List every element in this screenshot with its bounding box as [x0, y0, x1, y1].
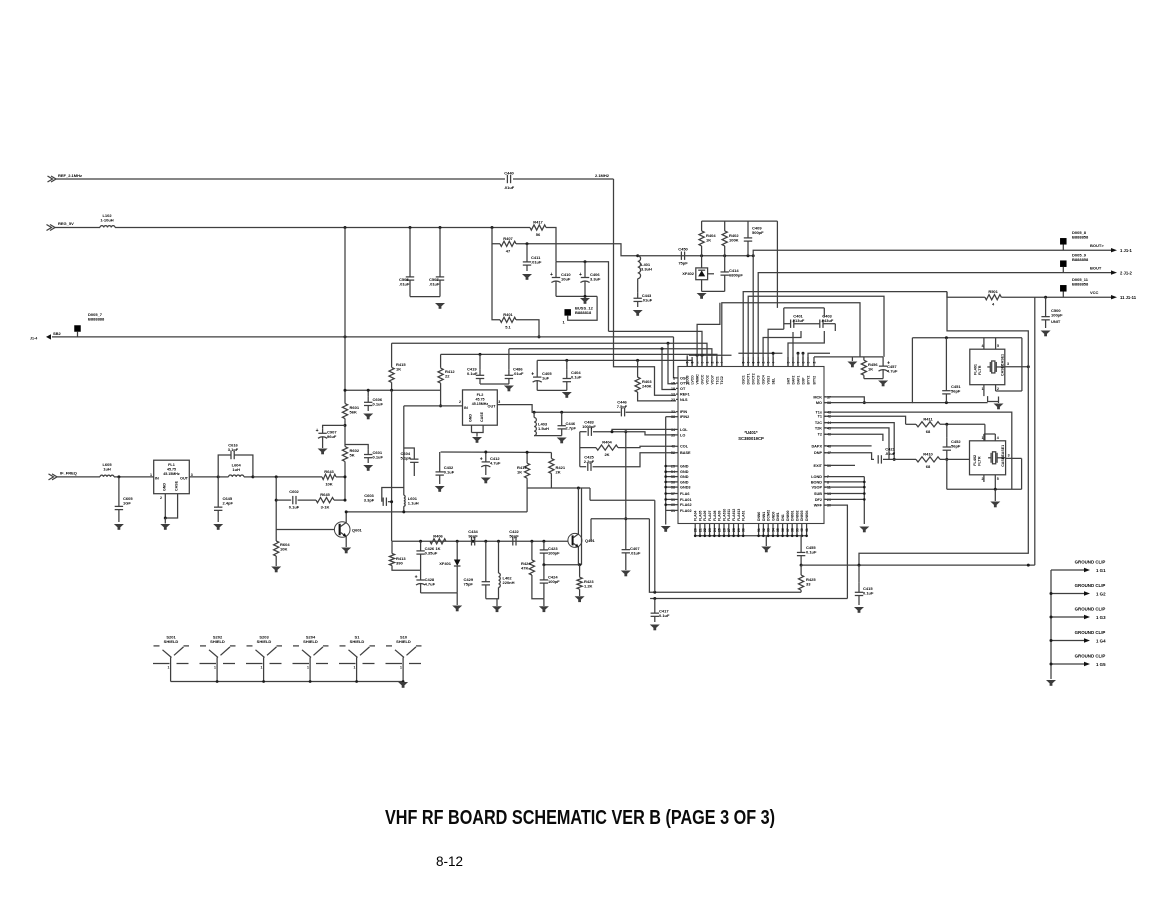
svg-text:2: 2 — [160, 496, 162, 500]
svg-text:OTY1: OTY1 — [680, 382, 690, 386]
wire VCC out — [1001, 296, 1111, 298]
svg-text:3-1K: 3-1K — [321, 505, 330, 510]
junction — [611, 430, 614, 433]
wire vert 1034 — [1034, 297, 1036, 565]
resistor R411 — [916, 416, 940, 434]
wire FL401 pin stubs — [983, 338, 985, 349]
capacitor C409 — [744, 221, 764, 256]
wire C457 rail — [814, 356, 883, 358]
svg-text:OSC1: OSC1 — [742, 375, 746, 384]
capacitor C645 — [214, 496, 234, 523]
node ground clip 4 — [1050, 630, 1107, 644]
wire — [56, 178, 505, 180]
svg-text:UNIT: UNIT — [1051, 319, 1061, 324]
ground — [650, 625, 660, 631]
svg-text:1: 1 — [982, 387, 984, 391]
wire ground clip bus — [1050, 570, 1052, 679]
svg-text:3: 3 — [1007, 362, 1009, 366]
svg-text:38: 38 — [791, 528, 795, 532]
capacitor C421 — [878, 446, 896, 463]
wire diode cap join — [702, 290, 725, 292]
capacitor C486 — [505, 367, 524, 385]
svg-text:XF402: XF402 — [682, 271, 695, 276]
svg-text:5.1pF: 5.1pF — [401, 456, 412, 461]
input arrow — [47, 225, 56, 231]
wire pad stub 1 — [1062, 245, 1064, 251]
filter FL401 — [970, 349, 1005, 385]
svg-text:R643: R643 — [324, 469, 334, 474]
svg-text:FLTR: FLTR — [978, 456, 982, 466]
wire C401 row — [784, 323, 791, 325]
transistor Q601 — [334, 522, 362, 538]
input arrow — [48, 176, 57, 182]
wire rail B to pin — [509, 349, 712, 367]
junction — [456, 540, 459, 543]
wire R424 bottom — [532, 578, 544, 599]
svg-text:LVCO: LVCO — [691, 375, 695, 385]
svg-text:.043uF: .043uF — [821, 318, 834, 323]
svg-text:2.4pF: 2.4pF — [223, 501, 234, 506]
junction — [636, 254, 639, 257]
wire C907 bottom — [322, 441, 324, 448]
inductor L102 — [100, 226, 115, 228]
wire C429 L402 join — [486, 587, 499, 598]
svg-text:8: 8 — [691, 362, 695, 364]
svg-text:47K: 47K — [521, 566, 528, 571]
wire FL402 stubs — [983, 434, 985, 441]
svg-text:27: 27 — [727, 528, 731, 532]
capacitor C404 — [563, 370, 582, 391]
wire R425 bottom rail — [649, 519, 801, 593]
svg-text:DN603: DN603 — [800, 510, 804, 521]
svg-text:500pF: 500pF — [752, 230, 764, 235]
resistor R407 — [500, 236, 516, 254]
svg-text:R411: R411 — [923, 416, 933, 421]
svg-text:0.1uF: 0.1uF — [863, 591, 874, 596]
svg-text:1: 1 — [705, 362, 709, 364]
junction — [747, 254, 750, 257]
svg-text:23: 23 — [671, 398, 675, 402]
svg-text:35: 35 — [776, 528, 780, 532]
svg-text:FLA61: FLA61 — [742, 511, 746, 521]
capacitor C507 — [429, 228, 444, 297]
svg-text:REG_5V: REG_5V — [58, 221, 74, 226]
svg-text:15: 15 — [671, 382, 675, 386]
capacitor C417 — [651, 608, 670, 623]
wire FL2 gnd stem — [476, 433, 478, 437]
wire MCK net — [824, 397, 864, 403]
svg-text:1: 1 — [150, 473, 152, 477]
resistor R403 — [635, 377, 652, 392]
ground — [633, 310, 643, 316]
capacitor C602 — [293, 496, 296, 504]
wire rail A left end — [391, 343, 393, 359]
junction — [800, 564, 803, 567]
filter FL2 — [459, 390, 500, 425]
diode XF401 — [439, 541, 460, 593]
wire IFIN2 stub — [666, 416, 676, 418]
ground — [854, 607, 864, 613]
ground — [481, 478, 491, 484]
svg-text:100pF: 100pF — [548, 579, 560, 584]
capacitor C410 — [550, 262, 571, 297]
wire C411 drop — [526, 244, 528, 256]
resistor R404 — [699, 221, 716, 256]
capacitor C604 — [401, 451, 419, 470]
svg-text:1: 1 — [307, 666, 309, 670]
svg-text:GND: GND — [680, 475, 689, 479]
wire 488 rail — [527, 487, 590, 489]
wire cap join — [537, 389, 567, 391]
svg-text:1: 1 — [982, 436, 984, 440]
svg-text:2: 2 — [812, 362, 816, 364]
svg-text:SHIELD: SHIELD — [210, 639, 225, 644]
capacitor C500 — [1041, 308, 1063, 328]
ground — [990, 502, 1000, 508]
ground — [621, 571, 631, 577]
arrow J1-11 — [1111, 295, 1117, 299]
wire C407 bottom — [625, 558, 627, 570]
wire C455 chain — [800, 535, 802, 543]
junction — [526, 242, 529, 245]
junction — [661, 347, 664, 350]
connector pad BUSS_12 — [564, 309, 571, 316]
svg-text:1uF: 1uF — [542, 376, 550, 381]
wire FL2 out — [497, 405, 590, 413]
resistor R410 — [916, 451, 940, 469]
IC bottom pin labels — [694, 509, 809, 532]
wire OT feed — [662, 349, 676, 390]
wire C604 net — [404, 448, 415, 452]
junction — [538, 335, 541, 338]
wire FL401 outer bottom — [912, 402, 987, 404]
wire L401-C413 — [637, 279, 639, 293]
wire C452 link — [946, 424, 948, 438]
svg-text:41: 41 — [805, 528, 809, 532]
input arrow — [49, 474, 58, 480]
svg-text:FLA611: FLA611 — [727, 509, 731, 521]
junction — [542, 563, 545, 566]
junction — [117, 475, 120, 478]
capacitor C425 — [584, 455, 595, 471]
svg-text:75pF: 75pF — [464, 582, 474, 587]
shield S204 — [293, 635, 329, 682]
wire T1 net — [824, 416, 906, 424]
svg-text:10K: 10K — [280, 547, 287, 552]
wire R404b row — [580, 447, 596, 449]
svg-text:0.35uF: 0.35uF — [425, 551, 438, 556]
wire Q601 collector — [346, 512, 527, 523]
svg-text:10K: 10K — [325, 481, 332, 486]
junction — [893, 458, 896, 461]
capacitor C440 — [504, 171, 514, 184]
svg-text:12: 12 — [671, 393, 675, 397]
svg-text:OT: OT — [680, 387, 686, 391]
capacitor C403 — [820, 313, 834, 328]
node ground clip 2 — [1050, 583, 1107, 597]
junction — [497, 540, 500, 543]
wire T2K net — [824, 428, 889, 460]
capacitor C412 — [480, 452, 501, 475]
svg-text:DNN0: DNN0 — [757, 512, 761, 521]
svg-text:1000pF: 1000pF — [582, 424, 596, 429]
junction — [275, 475, 278, 478]
shield S1 — [339, 635, 375, 682]
svg-text:MO: MO — [816, 401, 822, 405]
shield S10 — [386, 635, 422, 682]
ground — [1046, 680, 1056, 686]
wire FL1 gnd stem — [164, 518, 166, 524]
capacitor C605 — [115, 494, 134, 522]
capacitor C411 — [523, 255, 542, 271]
junction — [251, 475, 254, 478]
wire FL1 gnd pins — [164, 494, 166, 518]
svg-text:DN602: DN602 — [795, 510, 799, 521]
wire C602 row — [276, 499, 291, 501]
junction — [945, 423, 948, 426]
IC right pin stubs — [824, 397, 826, 505]
svg-text:FLA610: FLA610 — [722, 509, 726, 521]
wire R604 bottom — [275, 560, 277, 566]
svg-text:T2: T2 — [818, 433, 822, 437]
svg-text:34: 34 — [771, 528, 775, 532]
wire — [513, 178, 614, 180]
junction — [624, 517, 627, 520]
resistor R602 — [342, 445, 359, 464]
svg-text:4: 4 — [982, 344, 984, 348]
svg-text:2: 2 — [982, 477, 984, 481]
svg-text:+: + — [579, 272, 582, 278]
junction — [479, 353, 482, 356]
wire bundle 5 — [768, 329, 784, 366]
svg-text:OUT: OUT — [487, 405, 496, 409]
wire C457 feed from pin — [748, 296, 884, 366]
wire C603 loop top — [382, 488, 404, 502]
wire to FL1 — [114, 476, 154, 478]
wire — [516, 320, 539, 337]
svg-text:1K: 1K — [396, 367, 401, 372]
svg-text:1uH: 1uH — [103, 467, 111, 472]
wire R404b to COL — [618, 446, 676, 447]
svg-text:56: 56 — [536, 232, 541, 237]
svg-text:1: 1 — [400, 666, 402, 670]
junction — [797, 352, 800, 355]
svg-text:45.15MHz: 45.15MHz — [163, 472, 180, 476]
svg-text:FLA62: FLA62 — [680, 503, 692, 507]
ground — [271, 567, 281, 573]
wire C432 stub — [439, 452, 441, 463]
svg-text:B888888: B888888 — [88, 317, 105, 322]
svg-text:2.2pF: 2.2pF — [584, 459, 595, 464]
wire C401 left — [783, 308, 785, 329]
svg-text:1GF: 1GF — [123, 501, 131, 506]
IC left pin stubs — [676, 378, 678, 511]
svg-text:2K: 2K — [556, 470, 561, 475]
svg-text:R401: R401 — [503, 312, 513, 317]
wire C907 branch — [323, 425, 345, 428]
connector pad D005_11 — [1060, 285, 1067, 292]
svg-text:24: 24 — [713, 528, 717, 532]
svg-text:VHF RF BOARD SCHEMATIC VER B (: VHF RF BOARD SCHEMATIC VER B (PAGE 3 OF … — [385, 807, 775, 829]
svg-text:NLS: NLS — [680, 398, 688, 402]
wire 345 vert upper — [344, 337, 346, 402]
wire Q401 collector — [577, 488, 579, 535]
ground — [994, 404, 1004, 410]
svg-text:R410: R410 — [923, 451, 933, 456]
svg-text:1: 1 — [168, 666, 170, 670]
svg-text:CASE1: CASE1 — [1000, 354, 1004, 366]
svg-text:100pF: 100pF — [548, 551, 560, 556]
svg-text:1: 1 — [261, 666, 263, 670]
svg-text:GND3: GND3 — [680, 486, 691, 490]
inductor L601 — [404, 495, 419, 506]
svg-text:BASE: BASE — [680, 451, 691, 455]
wire XF402 right stub — [708, 273, 714, 275]
junction — [696, 354, 699, 357]
wire R410 right — [940, 458, 970, 460]
svg-text:SHIELD: SHIELD — [396, 639, 411, 644]
svg-text:.01uF: .01uF — [630, 551, 641, 556]
wire seam c2 — [590, 519, 592, 542]
svg-text:100K: 100K — [729, 238, 739, 243]
resistor R406 — [430, 533, 446, 551]
svg-text:GND: GND — [680, 480, 689, 484]
wire bus drop — [946, 459, 948, 489]
wire pin stub c — [797, 353, 799, 366]
svg-text:26: 26 — [722, 528, 726, 532]
junction — [636, 359, 639, 362]
resistor R413 — [389, 554, 406, 566]
junction — [409, 226, 412, 229]
svg-text:J1-4: J1-4 — [30, 337, 37, 341]
svg-text:EXIT: EXIT — [814, 464, 823, 468]
svg-text:SUB: SUB — [814, 492, 822, 496]
junction — [584, 260, 587, 263]
svg-text:DN600: DN600 — [786, 510, 790, 521]
junction — [863, 401, 866, 404]
svg-text:DNN1: DNN1 — [762, 512, 766, 521]
wire BOUT2 line — [758, 273, 1111, 367]
capacitor C415 — [855, 583, 874, 605]
wire rail D left end — [536, 360, 538, 367]
wire bundle 4 — [763, 331, 801, 367]
inductor L403 — [534, 418, 549, 436]
svg-text:B888858: B888858 — [1072, 257, 1089, 262]
svg-text:R501: R501 — [988, 289, 998, 294]
shield S203 — [246, 635, 282, 682]
IC top pin labels — [686, 362, 817, 385]
arrow J1-2 — [1111, 270, 1117, 274]
node ground clip 3 — [1050, 607, 1107, 621]
svg-text:1.1uH: 1.1uH — [408, 500, 419, 505]
ground — [318, 449, 328, 455]
svg-text:68: 68 — [926, 464, 931, 469]
capacitor C455 — [797, 543, 817, 565]
resistor R415 — [389, 360, 406, 391]
wire — [556, 295, 597, 297]
wire IFIN line — [590, 411, 620, 413]
svg-text:BYY2: BYY2 — [806, 376, 810, 385]
wire bundle 2 — [609, 331, 703, 366]
svg-text:1: 1 — [673, 376, 675, 380]
svg-text:1uH: 1uH — [232, 467, 240, 472]
junction — [526, 451, 529, 454]
svg-text:GROUND CLIP: GROUND CLIP — [1075, 560, 1106, 565]
svg-text:GND: GND — [680, 470, 689, 474]
svg-text:5: 5 — [742, 362, 746, 364]
wire C415 drop — [858, 565, 860, 583]
svg-text:LO: LO — [680, 433, 685, 437]
junction — [1027, 365, 1030, 368]
svg-text:T2K: T2K — [815, 426, 822, 430]
wire FL2 in line — [404, 405, 463, 407]
svg-text:IN: IN — [155, 477, 159, 481]
wire Q601 emitter — [345, 537, 347, 548]
svg-text:240K: 240K — [642, 384, 652, 389]
svg-text:.01uF: .01uF — [642, 298, 653, 303]
wire C602 branch — [275, 477, 277, 530]
svg-text:100pF: 100pF — [1051, 313, 1063, 318]
wire L601 net — [403, 406, 405, 495]
wire C645 drop — [217, 477, 219, 496]
svg-text:R417: R417 — [533, 220, 543, 225]
svg-text:GND: GND — [680, 464, 689, 468]
pad — [74, 325, 81, 332]
svg-text:T1C2: T1C2 — [720, 376, 724, 384]
svg-text:DN601: DN601 — [791, 510, 795, 521]
wire C483 right — [593, 432, 676, 435]
svg-text:22: 22 — [445, 374, 450, 379]
wire L403 stub — [533, 412, 535, 417]
junction — [344, 424, 347, 427]
junction — [653, 597, 656, 600]
ground — [557, 438, 567, 444]
wire REG5V drop left — [344, 228, 346, 337]
svg-text:68: 68 — [926, 429, 931, 434]
svg-text:REF_2.1MHz: REF_2.1MHz — [58, 173, 82, 178]
wire Q401 emitter — [577, 547, 579, 565]
inductor L605 — [100, 462, 114, 477]
wire C429 stub — [485, 541, 487, 574]
capacitor C407 — [622, 545, 641, 559]
svg-text:VSS1: VSS1 — [767, 376, 771, 385]
junction — [439, 226, 442, 229]
wire T2C net — [824, 423, 894, 460]
svg-text:5: 5 — [997, 477, 999, 481]
wire C401 block frame — [784, 307, 825, 309]
resistor R643 — [322, 469, 336, 487]
wire pin stub a — [686, 355, 688, 366]
wire 345 vert lower — [344, 464, 346, 501]
svg-text:CASE1: CASE1 — [1001, 445, 1005, 457]
wire C601 branch — [345, 445, 368, 450]
svg-text:FLA06: FLA06 — [703, 511, 707, 521]
diode XF402 — [682, 256, 714, 292]
svg-text:18: 18 — [671, 387, 675, 391]
svg-text:SHIELD: SHIELD — [164, 639, 179, 644]
svg-text:75pF: 75pF — [678, 260, 688, 265]
wire 345 vert mid — [344, 421, 346, 445]
capacitor C603 — [364, 493, 387, 506]
resistor R402 — [722, 221, 739, 256]
svg-text:B888858: B888858 — [1072, 235, 1089, 240]
svg-text:DVCT2: DVCT2 — [752, 373, 756, 384]
svg-text:R645: R645 — [320, 492, 330, 497]
junction — [533, 411, 536, 414]
junction — [700, 254, 703, 257]
svg-text:4: 4 — [997, 436, 999, 440]
wire C616 loop — [218, 455, 231, 477]
